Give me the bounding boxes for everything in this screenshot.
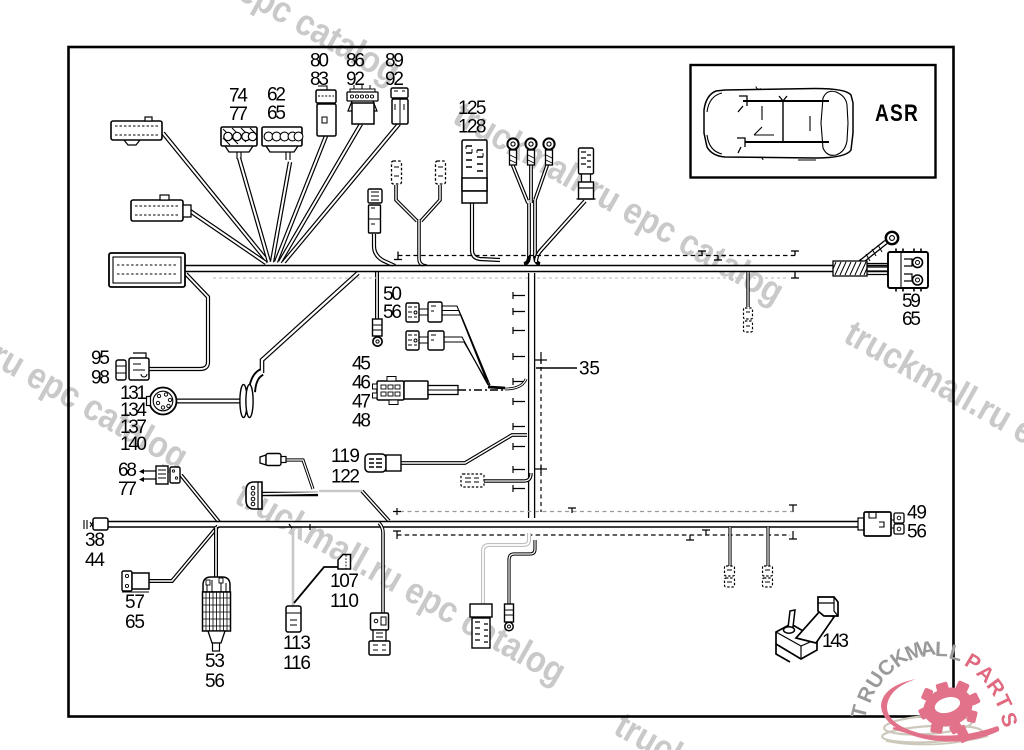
svg-text:35: 35	[579, 359, 600, 380]
35 leader line	[536, 367, 577, 369]
connector A (14-pin, top left)	[111, 117, 162, 145]
connector 45-48 assembly	[373, 377, 459, 405]
small plug (x270)	[260, 454, 286, 466]
wire fan: connector A to fan point	[163, 133, 268, 262]
wire pin-connector to trunk	[374, 234, 395, 266]
wire drop x730	[728, 527, 731, 566]
D-sub connector	[246, 482, 262, 509]
wire big diagonal to grommet 131	[262, 273, 358, 373]
pin connector (x374)	[368, 189, 382, 233]
grommet with elbow	[240, 372, 262, 418]
svg-text:L: L	[935, 638, 949, 661]
connector pair 2 (x407-444)	[406, 331, 444, 350]
svg-text:95: 95	[91, 348, 110, 369]
wire 95/98 branch	[149, 274, 208, 369]
wire 50/56 drop	[375, 272, 379, 319]
ticks on upper dashed line	[394, 251, 799, 278]
svg-text:53: 53	[205, 651, 225, 672]
wire 59/65 ring stem	[852, 242, 886, 269]
connector 38/44 (left end trunk2)	[84, 518, 108, 530]
wire drop x379 to connector stack	[379, 523, 383, 614]
connector C (large, left end of trunk1)	[109, 253, 185, 287]
terminal x508 with ring	[505, 604, 514, 631]
wire plug to D-junction	[285, 460, 313, 489]
connector 80/83	[316, 86, 336, 136]
svg-text:65: 65	[267, 103, 286, 124]
svg-text:45: 45	[352, 354, 371, 375]
car top view in ASR box	[704, 87, 853, 161]
svg-text:110: 110	[330, 591, 359, 612]
connector stack x379	[369, 613, 390, 655]
wire 45-48 plug leader (dash-dot) to bundle elbow	[458, 389, 505, 391]
round connector 131/134/137/140	[147, 388, 177, 415]
gray dashed above trunk2	[400, 511, 795, 513]
pink gear	[912, 674, 987, 743]
vertical bundle trunk1-trunk2	[529, 273, 534, 518]
wire 80/83 to fan	[276, 136, 326, 262]
gray dashed line below trunk1	[213, 277, 788, 279]
svg-text:47: 47	[352, 392, 371, 413]
dashed below trunk2	[397, 534, 790, 536]
wire pair2 to bundle	[444, 337, 490, 387]
ASR inset box	[691, 65, 936, 178]
svg-text:65: 65	[125, 612, 145, 633]
svg-text:38: 38	[85, 530, 105, 551]
connector 68/77 with arrows	[139, 466, 180, 484]
svg-text:57: 57	[125, 592, 145, 613]
svg-text:92: 92	[385, 69, 404, 90]
dashed line above trunk1	[398, 255, 795, 257]
svg-text:48: 48	[352, 411, 371, 432]
trunk1 braided sleeve section	[833, 261, 867, 276]
svg-text:107: 107	[330, 571, 359, 592]
svg-text:92: 92	[346, 69, 365, 90]
svg-text:56: 56	[907, 522, 927, 543]
wire 113/116 to 107/110	[294, 567, 339, 603]
small ticks on trunk2	[289, 524, 310, 530]
svg-text:77: 77	[229, 104, 248, 125]
svg-text:98: 98	[91, 368, 110, 389]
svg-text:46: 46	[352, 373, 371, 394]
ring terminal 2	[525, 138, 536, 165]
connector 86/92	[347, 85, 378, 124]
wires connector pair 1 to bundle	[442, 306, 490, 385]
drop connector at x748	[746, 272, 749, 307]
connector 59/65 with ring terminal	[886, 232, 928, 292]
drop terminal x768 (dashed)	[763, 566, 773, 587]
connector 57/65	[122, 571, 149, 592]
connector 74/77	[221, 127, 257, 159]
connector 95/98	[116, 353, 149, 380]
wire 131 circle to grommet	[177, 399, 242, 404]
connector 49/56 with twin terminals	[858, 512, 904, 536]
connector B (left, 8-pin)	[131, 195, 191, 221]
wire tall connector to trunk	[536, 201, 585, 262]
twin leads to 59/65 connector	[867, 264, 890, 275]
svg-text:140: 140	[120, 434, 147, 455]
wire connector B to fan	[190, 211, 266, 263]
wire 68/77 to trunk2	[181, 475, 219, 522]
small dashed box connector (x472)	[461, 474, 484, 487]
connector 113/116	[286, 606, 301, 632]
50/56 terminal with ring	[373, 319, 383, 346]
arc text TRUCKMALL	[847, 636, 965, 720]
wire 74/77 to fan	[239, 158, 269, 262]
wire 62/65 to fan	[272, 162, 290, 262]
svg-text:116: 116	[283, 653, 311, 674]
wire 53/56 pump drop	[214, 527, 218, 579]
wire 86/92 to fan	[280, 124, 361, 262]
svg-text:44: 44	[85, 550, 105, 571]
trunk harness 2 (lower main bundle)	[107, 522, 864, 526]
gear stem	[955, 725, 971, 744]
wire drop x768	[766, 527, 769, 566]
dashed vertical line x541	[540, 352, 542, 512]
tall connector (x586)	[577, 148, 596, 199]
connector 89/92	[391, 88, 408, 124]
Y dashed terminal right	[436, 161, 446, 184]
connector stack x483	[470, 604, 492, 648]
fuel pump style component 53/56	[203, 577, 231, 651]
Y dashed terminal left	[392, 161, 402, 184]
pink swoosh crescent	[881, 679, 999, 742]
svg-text:143: 143	[822, 631, 849, 652]
svg-text:119: 119	[331, 446, 360, 467]
svg-text:56: 56	[205, 671, 225, 692]
svg-text:65: 65	[902, 309, 921, 330]
wire 57/65 to trunk2	[149, 526, 218, 581]
wire D-connector lead	[262, 492, 318, 496]
frame border	[69, 47, 954, 717]
svg-text:ASR: ASR	[875, 100, 919, 127]
wire 125/128 drop	[472, 203, 500, 260]
svg-text:83: 83	[310, 69, 329, 90]
wire small box connector to bundle	[484, 473, 531, 481]
drop terminal x748 (dashed)	[744, 308, 753, 332]
bundle tick marks left side	[513, 292, 525, 492]
trunk harness 1 (upper main bundle)	[185, 266, 888, 271]
wire Y-terminals to trunk	[396, 185, 440, 266]
TRUCKMALL PARTS logo	[847, 636, 1021, 744]
bracket component 143 (isometric)	[776, 597, 838, 662]
svg-text:122: 122	[331, 467, 360, 488]
wire 119/122 to bundle	[401, 435, 527, 463]
connector 107/110	[338, 555, 351, 570]
wire gray segment to diagonal into trunk2	[319, 490, 362, 493]
connector 125/128	[462, 140, 487, 203]
arc text PARTS	[961, 649, 1022, 730]
svg-text:113: 113	[283, 633, 311, 654]
connector 119/122	[365, 454, 401, 472]
gray swirl ellipses	[882, 713, 988, 745]
wire branch from bundle to x508 terminal	[509, 540, 535, 604]
wires ring terminal trio	[513, 151, 549, 264]
drop terminal x730 (dashed)	[725, 566, 735, 587]
connector 62/65	[262, 127, 303, 160]
ring terminal 3	[543, 138, 554, 165]
ring terminal 1	[507, 138, 518, 165]
wire gray branch from bundle to x483 stack	[483, 533, 529, 604]
svg-text:56: 56	[383, 302, 402, 323]
connector pair 1 (x407-442)	[406, 302, 442, 322]
svg-text:128: 128	[458, 117, 487, 138]
svg-text:77: 77	[118, 479, 137, 500]
wire 89/92 to fan	[284, 124, 399, 262]
wire gray drop to 113/116	[292, 528, 295, 606]
svg-text:68: 68	[118, 460, 137, 481]
svg-text:49: 49	[907, 503, 927, 524]
